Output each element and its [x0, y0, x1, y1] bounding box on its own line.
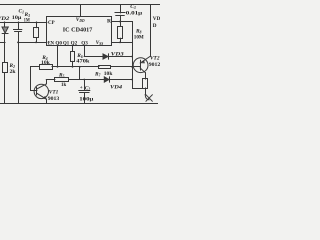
svg-text:D: D	[153, 23, 157, 29]
wire bottom ground rail	[0, 103, 158, 105]
resistor R9	[143, 79, 148, 95]
svg-text:10k: 10k	[104, 72, 113, 77]
svg-text:VT2: VT2	[150, 56, 160, 62]
svg-text:0.01μ: 0.01μ	[126, 11, 143, 16]
wire Q3 pin drop	[84, 46, 86, 57]
op-amp U1 IC CD4017 box	[47, 17, 112, 46]
wire R pin to right vertical	[112, 21, 133, 23]
svg-text:VD: VD	[153, 16, 160, 22]
capacitor C1	[14, 22, 22, 103]
wire top supply rail	[0, 4, 160, 6]
wire stub to left edge	[0, 42, 5, 44]
resistor R8	[118, 22, 123, 43]
earphone B	[145, 95, 152, 102]
svg-text:470k: 470k	[76, 59, 89, 64]
resistor R2	[3, 63, 8, 104]
wire CP node horizontal	[0, 22, 47, 24]
svg-text:VD2: VD2	[0, 16, 10, 22]
svg-text:Q0: Q0	[55, 40, 62, 46]
svg-text:VD3: VD3	[111, 52, 124, 58]
transistor VT1	[34, 80, 48, 104]
svg-text:Q3: Q3	[81, 40, 88, 46]
svg-text:+: +	[80, 86, 83, 91]
svg-text:IC CD4017: IC CD4017	[63, 28, 93, 34]
wire VT1 base link	[31, 67, 37, 91]
diode VD4	[104, 77, 132, 82]
svg-text:10M: 10M	[134, 36, 144, 41]
capacitor C2	[79, 80, 90, 104]
capacitor C3	[115, 5, 125, 22]
node CP junction dots	[4, 21, 133, 81]
transistor VT2	[132, 5, 150, 80]
svg-text:EN: EN	[48, 40, 54, 46]
svg-text:100μ: 100μ	[79, 98, 93, 103]
svg-text:Q2: Q2	[71, 40, 78, 46]
diode VD2	[2, 22, 8, 62]
resistor R5	[46, 78, 104, 82]
diode VD3	[84, 54, 132, 59]
svg-text:CP: CP	[48, 20, 55, 26]
wire VDD pin drop	[80, 5, 82, 17]
svg-text:VD4: VD4	[110, 85, 122, 91]
wire right-side vertical bus	[133, 22, 146, 89]
svg-text:1k: 1k	[61, 83, 66, 88]
wire R5 riser from bus	[79, 67, 81, 80]
svg-text:9013: 9013	[48, 97, 60, 102]
resistor R4	[31, 65, 99, 70]
svg-text:10k: 10k	[41, 61, 50, 66]
wire VSS pin horizontal	[112, 42, 133, 44]
wire EN node horizontal	[18, 42, 47, 44]
resistor R7	[99, 66, 141, 69]
svg-text:1M: 1M	[24, 18, 30, 23]
svg-text:VT1: VT1	[49, 90, 59, 96]
svg-text:10μ: 10μ	[12, 16, 22, 21]
resistor R3	[34, 22, 39, 42]
svg-text:9012: 9012	[149, 63, 160, 68]
svg-text:Q1: Q1	[63, 40, 69, 46]
resistor R6	[71, 46, 75, 67]
wire Q0 pin drop	[57, 46, 59, 67]
svg-text:2k: 2k	[10, 70, 16, 75]
